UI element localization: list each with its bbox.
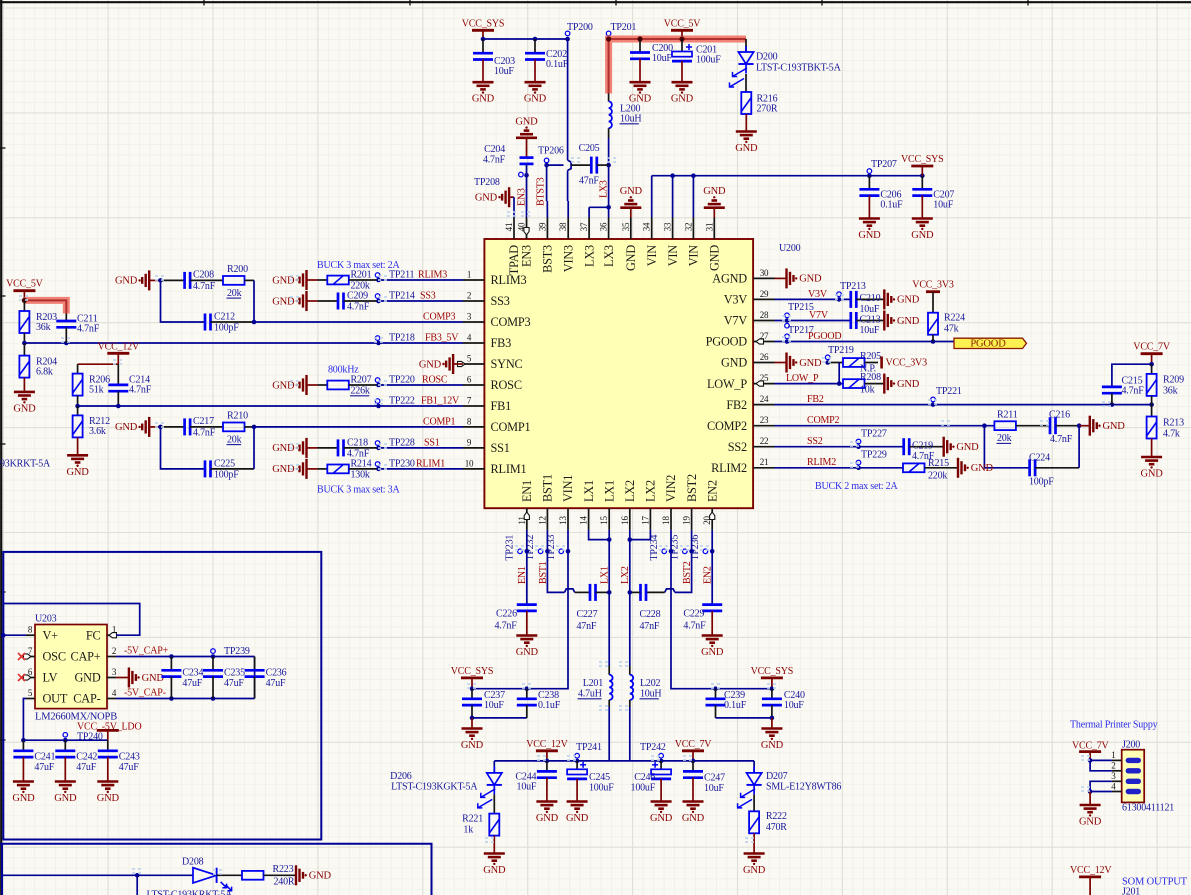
svg-text:10k: 10k: [860, 385, 875, 396]
svg-text:10uH: 10uH: [640, 689, 661, 700]
svg-text:VIN: VIN: [687, 245, 701, 267]
svg-text:TP206: TP206: [538, 146, 564, 157]
svg-text:LTST-C193KGKT-5A: LTST-C193KGKT-5A: [391, 781, 478, 792]
svg-text:10: 10: [465, 458, 474, 468]
svg-text:14: 14: [579, 516, 589, 525]
svg-text:0.1uF: 0.1uF: [880, 200, 903, 211]
svg-text:2: 2: [467, 290, 471, 300]
svg-text:1k: 1k: [463, 825, 473, 836]
svg-text:VCC_5V: VCC_5V: [664, 18, 702, 29]
svg-text:8: 8: [28, 625, 33, 635]
svg-text:GND: GND: [516, 647, 539, 658]
svg-text:2: 2: [1111, 761, 1115, 771]
svg-text:R224: R224: [944, 313, 965, 324]
svg-text:4.7nF: 4.7nF: [193, 427, 216, 438]
svg-text:28: 28: [760, 310, 769, 320]
svg-text:BTST3: BTST3: [535, 177, 546, 206]
svg-text:26: 26: [760, 352, 769, 362]
svg-text:GND: GND: [897, 379, 920, 390]
svg-text:TP227: TP227: [861, 428, 887, 439]
svg-text:GND: GND: [1141, 469, 1164, 480]
svg-text:GND: GND: [1079, 817, 1102, 828]
svg-text:C241: C241: [34, 751, 55, 762]
svg-text:3: 3: [112, 667, 117, 677]
svg-text:21: 21: [760, 457, 769, 467]
svg-text:29: 29: [760, 289, 769, 299]
svg-text:4: 4: [112, 688, 117, 698]
svg-text:RLIM3: RLIM3: [418, 269, 447, 280]
svg-text:3: 3: [467, 311, 472, 321]
svg-text:C210: C210: [860, 293, 881, 304]
svg-text:LOW_P: LOW_P: [707, 377, 747, 391]
svg-text:SML-E12Y8WT86: SML-E12Y8WT86: [766, 782, 841, 793]
svg-text:D200: D200: [756, 52, 778, 63]
svg-text:GND: GND: [115, 276, 138, 287]
svg-text:VCC_12V: VCC_12V: [98, 341, 140, 352]
svg-text:R221: R221: [462, 813, 483, 824]
svg-text:LX1: LX1: [582, 480, 596, 502]
svg-text:GND: GND: [721, 356, 747, 370]
svg-text:47uF: 47uF: [119, 762, 139, 773]
svg-text:GND: GND: [566, 813, 589, 824]
svg-text:37: 37: [579, 222, 589, 231]
svg-text:SS3: SS3: [420, 290, 436, 301]
svg-text:TP201: TP201: [611, 22, 637, 33]
svg-text:J201: J201: [1122, 887, 1140, 895]
svg-text:GND: GND: [524, 94, 547, 105]
svg-text:C208: C208: [193, 269, 214, 280]
svg-text:C217: C217: [193, 416, 214, 427]
svg-text:10uF: 10uF: [860, 325, 880, 336]
svg-text:GND: GND: [708, 245, 722, 271]
svg-text:0.1uF: 0.1uF: [546, 59, 569, 70]
svg-text:6.8k: 6.8k: [36, 366, 53, 377]
svg-text:VCC_12V: VCC_12V: [1070, 865, 1112, 876]
svg-text:C205: C205: [579, 143, 600, 154]
svg-text:VCC_3V3: VCC_3V3: [912, 280, 954, 291]
svg-text:GND: GND: [703, 186, 726, 197]
svg-text:TP211: TP211: [389, 269, 414, 280]
svg-text:1: 1: [1111, 750, 1115, 760]
svg-text:13: 13: [558, 516, 568, 525]
svg-text:VIN: VIN: [645, 245, 659, 267]
svg-text:V3V: V3V: [724, 293, 748, 307]
svg-text:100pF: 100pF: [1029, 477, 1054, 488]
svg-text:PGOOD: PGOOD: [808, 331, 841, 342]
svg-text:47uF: 47uF: [182, 678, 202, 689]
svg-text:C225: C225: [214, 458, 235, 469]
svg-text:4.7k: 4.7k: [1163, 428, 1180, 439]
svg-text:VCC_SYS: VCC_SYS: [462, 18, 505, 29]
svg-text:4: 4: [1111, 781, 1116, 791]
svg-text:LX2: LX2: [623, 480, 637, 502]
svg-text:47uF: 47uF: [76, 762, 96, 773]
svg-text:BST3: BST3: [541, 245, 555, 273]
svg-text:LX3: LX3: [602, 245, 616, 267]
svg-text:LTST-C193TBKT-5A: LTST-C193TBKT-5A: [756, 63, 842, 74]
svg-text:FB2: FB2: [726, 398, 747, 412]
svg-text:R213: R213: [1163, 417, 1184, 428]
svg-text:C236: C236: [266, 667, 287, 678]
svg-text:GND: GND: [461, 740, 484, 751]
svg-text:47k: 47k: [944, 324, 959, 335]
svg-text:4.7uH: 4.7uH: [578, 689, 602, 700]
svg-text:U200: U200: [779, 243, 801, 254]
svg-text:TP240: TP240: [77, 732, 103, 743]
svg-text:38: 38: [558, 222, 568, 231]
svg-text:GND: GND: [115, 422, 138, 433]
svg-text:GND: GND: [475, 193, 498, 204]
svg-text:TP231: TP231: [505, 535, 516, 561]
svg-text:D207: D207: [766, 771, 788, 782]
svg-text:61300411121: 61300411121: [1122, 803, 1174, 814]
svg-text:TP221: TP221: [936, 386, 962, 397]
svg-text:GND: GND: [142, 673, 165, 684]
svg-text:LX3: LX3: [599, 180, 610, 198]
svg-text:C212: C212: [214, 311, 235, 322]
svg-text:TP208: TP208: [474, 177, 500, 188]
svg-text:C228: C228: [640, 609, 661, 620]
svg-text:7: 7: [467, 395, 472, 405]
svg-text:39: 39: [537, 222, 547, 231]
svg-text:GND: GND: [620, 186, 643, 197]
svg-text:C209: C209: [347, 290, 368, 301]
svg-text:GND: GND: [1103, 421, 1126, 432]
svg-text:D208: D208: [182, 856, 204, 867]
svg-text:10uF: 10uF: [860, 304, 880, 315]
svg-text:VCC_5V: VCC_5V: [6, 279, 44, 290]
svg-text:OSC: OSC: [43, 650, 66, 664]
svg-text:R214: R214: [351, 458, 372, 469]
svg-text:0.1uF: 0.1uF: [724, 700, 747, 711]
svg-text:V+: V+: [43, 628, 59, 642]
svg-text:16: 16: [620, 516, 630, 525]
svg-text:BST1: BST1: [541, 474, 555, 502]
svg-text:41: 41: [504, 223, 514, 232]
svg-text:100uF: 100uF: [696, 55, 721, 66]
svg-text:2: 2: [112, 646, 116, 656]
svg-text:C227: C227: [577, 609, 598, 620]
svg-text:CAP-: CAP-: [73, 692, 100, 706]
svg-text:RLIM1: RLIM1: [416, 458, 445, 469]
svg-text:GND: GND: [536, 813, 559, 824]
svg-text:FB3: FB3: [491, 336, 512, 350]
svg-text:C213: C213: [860, 314, 881, 325]
svg-text:V7V: V7V: [724, 314, 748, 328]
svg-text:VIN2: VIN2: [664, 475, 678, 502]
svg-text:RLIM2: RLIM2: [711, 461, 747, 475]
svg-text:4.7nF: 4.7nF: [483, 154, 506, 165]
svg-text:EN3: EN3: [516, 188, 527, 206]
svg-text:10uF: 10uF: [494, 66, 514, 77]
svg-text:32: 32: [683, 223, 693, 232]
svg-text:LX3: LX3: [582, 245, 596, 267]
svg-text:GND: GND: [911, 230, 934, 241]
svg-text:34: 34: [642, 222, 652, 231]
svg-text:TP239: TP239: [224, 646, 250, 657]
svg-text:6: 6: [467, 374, 472, 384]
svg-text:20k: 20k: [997, 433, 1012, 444]
svg-text:36k: 36k: [36, 322, 51, 333]
svg-text:VCC_12V: VCC_12V: [526, 739, 568, 750]
svg-text:10uF: 10uF: [484, 700, 504, 711]
svg-text:TP200: TP200: [567, 22, 593, 33]
svg-text:TP213: TP213: [840, 281, 866, 292]
svg-text:100pF: 100pF: [214, 470, 239, 481]
svg-text:47uF: 47uF: [266, 678, 286, 689]
svg-text:R201: R201: [351, 269, 372, 280]
svg-text:OUT: OUT: [43, 692, 68, 706]
svg-text:FB1: FB1: [491, 399, 512, 413]
svg-text:FC: FC: [86, 628, 101, 642]
svg-text:10uH: 10uH: [620, 114, 641, 125]
svg-text:10uF: 10uF: [652, 53, 672, 64]
svg-text:GND: GND: [743, 865, 766, 876]
svg-text:C246: C246: [634, 772, 655, 783]
svg-text:ROSC: ROSC: [491, 378, 522, 392]
svg-text:VCC_7V: VCC_7V: [1133, 342, 1171, 353]
svg-text:CAP+: CAP+: [70, 650, 100, 664]
svg-text:51k: 51k: [89, 384, 104, 395]
svg-text:31: 31: [704, 223, 714, 232]
svg-text:4.7nF: 4.7nF: [77, 323, 100, 334]
svg-text:22: 22: [760, 436, 769, 446]
svg-text:C226: C226: [496, 608, 517, 619]
svg-text:TP241: TP241: [576, 742, 602, 753]
svg-text:GND: GND: [67, 467, 90, 478]
svg-text:47nF: 47nF: [579, 176, 599, 187]
svg-text:SS1: SS1: [424, 437, 440, 448]
svg-text:240R: 240R: [274, 876, 295, 887]
svg-text:R207: R207: [351, 374, 372, 385]
svg-text:C235: C235: [224, 667, 245, 678]
svg-text:10uF: 10uF: [517, 781, 537, 792]
svg-text:17: 17: [640, 516, 650, 525]
svg-text:C216: C216: [1049, 410, 1070, 421]
svg-text:GND: GND: [971, 463, 994, 474]
svg-text:100uF: 100uF: [631, 783, 656, 794]
svg-text:GND: GND: [54, 793, 77, 804]
svg-text:Thermal Printer Suppy: Thermal Printer Suppy: [1070, 720, 1158, 731]
svg-text:BST2: BST2: [685, 474, 699, 502]
svg-text:47uF: 47uF: [34, 762, 54, 773]
svg-text:93KRKT-5A: 93KRKT-5A: [0, 459, 51, 470]
svg-text:R205: R205: [860, 351, 881, 362]
svg-text:20k: 20k: [227, 434, 242, 445]
svg-text:19: 19: [682, 516, 692, 525]
svg-text:C245: C245: [589, 772, 610, 783]
svg-text:COMP3: COMP3: [491, 315, 531, 329]
svg-text:GND: GND: [671, 94, 694, 105]
svg-text:GND: GND: [419, 359, 442, 370]
svg-text:GND: GND: [12, 793, 35, 804]
svg-text:-5V_CAP-: -5V_CAP-: [124, 687, 166, 698]
svg-text:TP220: TP220: [389, 374, 415, 385]
svg-text:5: 5: [28, 688, 33, 698]
svg-text:VCC_SYS: VCC_SYS: [901, 154, 944, 165]
svg-text:18: 18: [661, 516, 671, 525]
svg-text:COMP1: COMP1: [423, 416, 456, 427]
svg-text:23: 23: [760, 415, 769, 425]
svg-text:GND: GND: [858, 230, 881, 241]
svg-text:ROSC: ROSC: [422, 374, 448, 385]
svg-text:SS1: SS1: [491, 441, 510, 455]
svg-text:C243: C243: [119, 751, 140, 762]
svg-text:J200: J200: [1122, 739, 1140, 750]
svg-text:20k: 20k: [227, 288, 242, 299]
svg-text:9: 9: [467, 437, 472, 447]
svg-text:GND: GND: [624, 245, 638, 271]
svg-text:4.7nF: 4.7nF: [129, 384, 152, 395]
svg-text:R222: R222: [766, 811, 787, 822]
svg-text:VIN1: VIN1: [561, 475, 575, 502]
svg-text:TP207: TP207: [871, 159, 897, 170]
svg-text:FB1_12V: FB1_12V: [421, 395, 460, 406]
svg-text:4.7nF: 4.7nF: [347, 302, 370, 313]
svg-text:TP242: TP242: [640, 742, 666, 753]
svg-text:R200: R200: [227, 264, 248, 275]
svg-text:L202: L202: [640, 678, 661, 689]
svg-text:GND: GND: [897, 316, 920, 327]
svg-text:100uF: 100uF: [589, 783, 614, 794]
svg-text:GND: GND: [74, 671, 100, 685]
svg-text:AGND: AGND: [712, 272, 747, 286]
svg-text:TP228: TP228: [389, 437, 415, 448]
svg-text:C229: C229: [683, 608, 704, 619]
svg-text:10uF: 10uF: [704, 783, 724, 794]
svg-text:FB3_5V: FB3_5V: [425, 332, 459, 343]
svg-text:12: 12: [537, 516, 547, 525]
svg-text:RLIM2: RLIM2: [807, 457, 836, 468]
svg-text:LV: LV: [43, 671, 58, 685]
svg-text:SS2: SS2: [807, 436, 823, 447]
svg-text:RLIM1: RLIM1: [491, 462, 527, 476]
svg-text:BUCK 3 max set: 3A: BUCK 3 max set: 3A: [317, 485, 400, 496]
svg-text:4.7nF: 4.7nF: [193, 281, 216, 292]
svg-text:GND: GND: [897, 295, 920, 306]
svg-text:470R: 470R: [766, 822, 787, 833]
svg-text:GND: GND: [682, 813, 705, 824]
svg-text:30: 30: [760, 268, 769, 278]
svg-text:TP230: TP230: [389, 458, 415, 469]
svg-text:C218: C218: [347, 437, 368, 448]
svg-text:GND: GND: [483, 865, 506, 876]
svg-text:VCC_3V3: VCC_3V3: [886, 358, 928, 369]
svg-text:LTST-C193KRKT-5A: LTST-C193KRKT-5A: [147, 890, 234, 895]
svg-text:GND: GND: [472, 94, 495, 105]
svg-text:100pF: 100pF: [214, 323, 239, 334]
svg-text:1: 1: [467, 269, 471, 279]
svg-text:TP215: TP215: [788, 302, 814, 313]
svg-text:SYNC: SYNC: [491, 357, 523, 371]
svg-text:33: 33: [663, 222, 673, 231]
svg-text:24: 24: [760, 394, 769, 404]
svg-text:35: 35: [621, 222, 631, 231]
svg-text:C242: C242: [76, 751, 97, 762]
svg-text:GND: GND: [701, 647, 724, 658]
svg-text:GND: GND: [799, 274, 822, 285]
svg-text:LX1: LX1: [602, 480, 616, 502]
svg-text:R211: R211: [997, 410, 1018, 421]
svg-text:15: 15: [599, 516, 609, 525]
svg-text:C219: C219: [912, 441, 933, 452]
svg-text:VCC_7V: VCC_7V: [675, 739, 713, 750]
svg-text:10uF: 10uF: [933, 200, 953, 211]
svg-text:EN1: EN1: [520, 480, 534, 502]
svg-text:4.7nF: 4.7nF: [683, 621, 706, 632]
svg-text:3.6k: 3.6k: [89, 426, 106, 437]
svg-text:TP219: TP219: [828, 345, 854, 356]
svg-text:PGOOD: PGOOD: [706, 335, 748, 349]
svg-text:VIN3: VIN3: [561, 245, 575, 272]
svg-text:0.1uF: 0.1uF: [538, 700, 561, 711]
svg-text:226k: 226k: [351, 386, 370, 397]
svg-text:VCC_SYS: VCC_SYS: [751, 666, 794, 677]
svg-text:EN2: EN2: [705, 480, 719, 502]
svg-text:PGOOD: PGOOD: [970, 339, 1006, 350]
svg-text:COMP2: COMP2: [807, 415, 840, 426]
svg-text:47nF: 47nF: [577, 621, 597, 632]
svg-text:GND: GND: [97, 793, 120, 804]
svg-text:8: 8: [467, 416, 472, 426]
svg-text:4.7nF: 4.7nF: [1050, 434, 1073, 445]
svg-text:L201: L201: [583, 678, 604, 689]
svg-text:270R: 270R: [757, 104, 778, 115]
svg-text:SS2: SS2: [728, 440, 747, 454]
svg-text:SS3: SS3: [491, 294, 510, 308]
svg-text:LX2: LX2: [644, 480, 658, 502]
svg-text:VCC_7V: VCC_7V: [1072, 741, 1110, 752]
svg-text:130k: 130k: [351, 470, 370, 481]
svg-text:BUCK 2 max set: 2A: BUCK 2 max set: 2A: [815, 481, 898, 492]
svg-text:C224: C224: [1029, 453, 1050, 464]
svg-text:4.7nF: 4.7nF: [1122, 386, 1145, 397]
svg-text:36: 36: [599, 222, 609, 231]
svg-text:R209: R209: [1163, 375, 1184, 386]
svg-text:V3V: V3V: [808, 289, 828, 300]
svg-text:U203: U203: [35, 614, 57, 625]
svg-text:GND: GND: [761, 740, 784, 751]
svg-text:220k: 220k: [928, 470, 947, 481]
svg-text:COMP1: COMP1: [491, 420, 531, 434]
svg-text:3: 3: [1111, 771, 1116, 781]
svg-text:R208: R208: [860, 372, 881, 383]
svg-text:47nF: 47nF: [640, 621, 660, 632]
svg-text:GND: GND: [650, 813, 673, 824]
svg-text:FB2: FB2: [807, 394, 824, 405]
svg-text:GND: GND: [799, 358, 822, 369]
svg-text:47uF: 47uF: [224, 678, 244, 689]
svg-text:4: 4: [467, 332, 472, 342]
svg-text:COMP3: COMP3: [423, 311, 456, 322]
svg-text:C234: C234: [182, 667, 203, 678]
svg-text:GND: GND: [309, 871, 332, 882]
svg-text:R210: R210: [227, 411, 248, 422]
svg-text:GND: GND: [735, 143, 758, 154]
svg-text:TP222: TP222: [389, 395, 415, 406]
svg-text:GND: GND: [515, 116, 538, 127]
svg-text:TP218: TP218: [389, 332, 415, 343]
svg-text:LOW_P: LOW_P: [786, 373, 819, 384]
svg-text:R223: R223: [273, 864, 294, 875]
svg-text:COMP2: COMP2: [707, 419, 747, 433]
svg-text:36k: 36k: [1163, 386, 1178, 397]
svg-text:5: 5: [467, 353, 472, 363]
svg-text:-5V_CAP+: -5V_CAP+: [124, 645, 169, 656]
svg-text:TP229: TP229: [861, 449, 887, 460]
svg-text:VIN: VIN: [666, 245, 680, 267]
svg-text:10uF: 10uF: [784, 700, 804, 711]
